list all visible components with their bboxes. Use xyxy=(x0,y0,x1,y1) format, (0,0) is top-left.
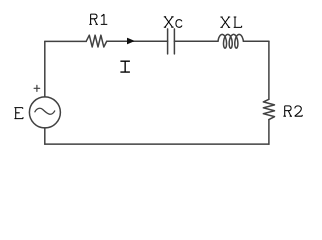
resistor R2 xyxy=(263,99,274,119)
inductor XL xyxy=(218,34,243,48)
wire R1 to capacitor xyxy=(107,40,168,42)
wire bottom xyxy=(45,143,269,145)
wire right side down to R2 xyxy=(268,41,270,99)
label Xc xyxy=(164,17,182,28)
label R1 xyxy=(89,14,107,24)
current arrow I xyxy=(127,38,133,44)
label R2 xyxy=(283,106,302,116)
wire R2 to bottom-right corner xyxy=(268,120,270,145)
plus sign of source xyxy=(34,85,40,91)
wire source to top-left corner xyxy=(44,41,46,97)
AC source E circle xyxy=(29,97,60,128)
label I xyxy=(120,61,129,72)
wire bottom-left up to source xyxy=(44,128,46,144)
capacitor Xc left plate xyxy=(167,29,169,54)
wire top-left corner to R1 xyxy=(45,40,86,42)
label E xyxy=(14,108,23,119)
capacitor Xc right plate xyxy=(173,29,175,54)
wire inductor to top-right corner xyxy=(243,40,269,42)
resistor R1 xyxy=(86,35,107,47)
label XL xyxy=(220,17,241,27)
wire capacitor to inductor xyxy=(174,40,218,42)
sine wave inside source xyxy=(35,108,55,114)
